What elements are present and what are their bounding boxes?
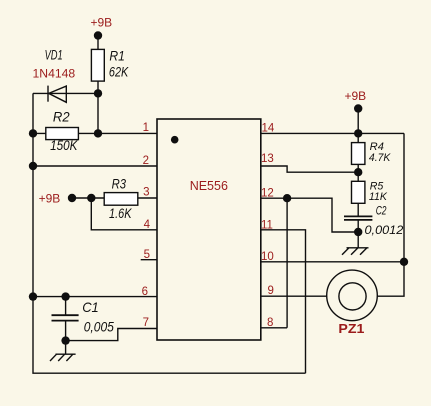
resistor R5 — [352, 181, 365, 203]
svg-text:NE556: NE556 — [190, 179, 228, 193]
wire R3 to pin 3 — [137, 197, 157, 199]
wire pin 8 — [261, 327, 287, 329]
resistor R2 — [46, 128, 79, 140]
node rail-pin2 — [29, 162, 37, 170]
diode VD1 — [48, 86, 66, 103]
svg-text:62K: 62K — [109, 64, 129, 80]
node R2-pin1 — [94, 129, 102, 137]
svg-text:2: 2 — [143, 155, 149, 167]
svg-text:14: 14 — [262, 122, 275, 134]
svg-text:1N4148: 1N4148 — [33, 66, 76, 80]
svg-text:12: 12 — [261, 187, 274, 199]
ground C2 — [342, 248, 369, 255]
svg-text:4.7K: 4.7K — [369, 152, 391, 164]
node R4-R5 — [354, 168, 362, 176]
svg-text:11: 11 — [261, 219, 273, 231]
svg-text:13: 13 — [261, 153, 274, 165]
wire pin 6 — [33, 296, 157, 298]
svg-text:11K: 11K — [369, 191, 388, 203]
wire pin 13 jog — [261, 166, 358, 172]
node pin14 +9V — [354, 129, 362, 137]
svg-text:C2: C2 — [376, 206, 387, 218]
wire PZ1 right lead — [377, 262, 404, 296]
capacitor C2 — [344, 216, 372, 220]
wire R1 bottom — [97, 81, 99, 133]
svg-text:3: 3 — [143, 187, 149, 199]
wire pin 5 stub — [141, 259, 157, 261]
svg-text:1: 1 — [143, 122, 149, 134]
svg-text:R2: R2 — [53, 108, 70, 124]
IC U1 NE556 — [157, 119, 261, 340]
svg-text:+9В: +9В — [39, 191, 61, 205]
wire left rail — [33, 93, 306, 373]
wire C1 bottom lead — [65, 321, 67, 341]
wire R2 row to pin 1 — [33, 132, 157, 134]
svg-text:6: 6 — [142, 286, 148, 298]
wire pin 12 to pin 8 vertical — [286, 198, 288, 328]
node C2 bottom — [354, 228, 362, 236]
wire pin 10 — [261, 261, 404, 263]
capacitor C1 — [52, 315, 79, 320]
node pin10 PZ1 — [400, 258, 408, 266]
wire R5 to C2 — [357, 203, 359, 216]
wire R1 top — [97, 36, 99, 50]
svg-text:9: 9 — [268, 285, 274, 297]
wire R4 to R5 — [357, 164, 359, 181]
svg-text:150K: 150K — [50, 137, 78, 153]
svg-text:8: 8 — [267, 317, 273, 329]
svg-text:R3: R3 — [112, 175, 127, 191]
node rail-pin6 — [29, 292, 37, 300]
wire pin 2 — [33, 165, 157, 167]
node C1 bottom — [61, 336, 69, 344]
svg-text:R1: R1 — [109, 48, 125, 64]
ground C1 — [50, 341, 76, 361]
svg-text:4: 4 — [144, 219, 151, 231]
resistor R3 — [104, 193, 138, 206]
wire +9V right lead — [357, 109, 359, 143]
wire C2 bottom lead — [357, 220, 359, 248]
wire C1 top lead — [65, 297, 67, 316]
wire pin 9 to PZ1 — [261, 295, 327, 297]
resistor R4 — [352, 143, 365, 165]
svg-text:10: 10 — [261, 251, 274, 263]
node rail-R2 — [29, 129, 37, 137]
buzzer PZ1 — [327, 270, 378, 321]
wire pin 7 jog — [66, 329, 157, 341]
svg-text:PZ1: PZ1 — [338, 322, 364, 336]
wire right rail — [403, 133, 405, 261]
node R1-VD1 — [94, 89, 102, 97]
svg-text:+9В: +9В — [91, 16, 113, 30]
svg-text:+9В: +9В — [345, 89, 367, 103]
wire pin 14 — [261, 132, 404, 134]
node C1 top — [61, 292, 69, 300]
resistor R1 — [91, 49, 104, 81]
svg-text:C1: C1 — [82, 299, 99, 315]
wire pin 11 to bottom — [261, 230, 306, 373]
svg-text:5: 5 — [144, 249, 150, 261]
wire pin 12 jog — [261, 198, 358, 232]
svg-text:1.6K: 1.6K — [109, 205, 132, 221]
wire pin 4 branch — [91, 198, 157, 230]
svg-text:VD1: VD1 — [45, 46, 63, 62]
node R3 left — [87, 194, 95, 202]
svg-text:0,005: 0,005 — [84, 318, 114, 334]
svg-text:0,0012: 0,0012 — [365, 225, 404, 237]
svg-text:7: 7 — [143, 317, 149, 329]
node pin12 — [283, 194, 291, 202]
wire +9V to R3 node — [72, 197, 105, 199]
wire diode row — [33, 92, 98, 94]
